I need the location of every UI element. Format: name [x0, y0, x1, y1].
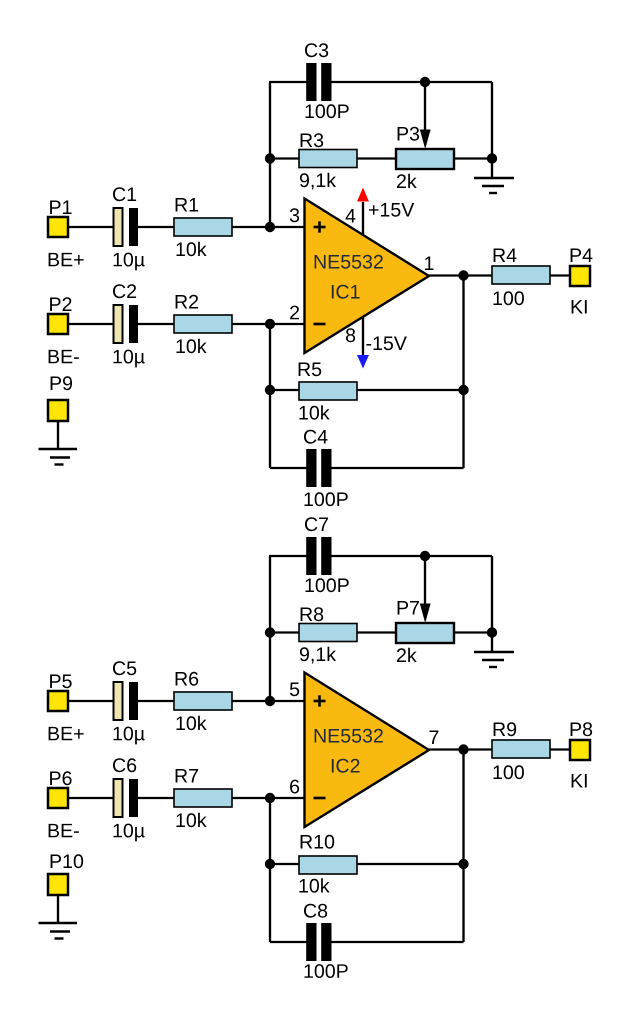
junction noninverting input node	[265, 696, 275, 706]
wire left node to R3	[270, 157, 299, 159]
wire R9 to P8	[550, 748, 570, 750]
pin number 8	[346, 328, 355, 342]
value 9,1k (R8)	[300, 647, 336, 664]
capacitor C4 plate 1	[306, 449, 316, 487]
label R2	[176, 295, 198, 309]
wire +15V supply to pin 4	[362, 202, 364, 236]
wire R6 to opamp pin 5	[232, 700, 304, 702]
op-amp IC1 plus input marker	[314, 226, 326, 229]
label C7	[305, 517, 328, 531]
label P6	[50, 771, 72, 785]
wire R8 to P7	[357, 631, 396, 633]
+15V arrow	[357, 188, 369, 202]
label P2	[50, 297, 71, 311]
connector pad P9	[48, 400, 68, 421]
potentiometer P7	[396, 623, 454, 643]
label P7	[398, 601, 419, 614]
label C6	[113, 758, 136, 772]
label P5	[50, 675, 72, 689]
pin number 3	[290, 208, 299, 222]
wire R7 to opamp pin 6	[232, 797, 304, 799]
connector pad P5	[48, 691, 68, 711]
wiper arrow of P3	[420, 130, 431, 150]
wire R5 to output branch	[357, 389, 464, 391]
wire top rail down to ground	[491, 82, 493, 178]
label R4	[494, 249, 517, 262]
wire P9 to ground	[57, 421, 59, 449]
wire P6 to C6	[68, 797, 113, 799]
pin number 6	[290, 780, 299, 794]
wire noninverting node up to top feedback rail	[269, 82, 271, 227]
wire inverting node down to feedback	[269, 324, 271, 468]
wire R3 to P3	[357, 157, 396, 159]
value 10k (R2)	[176, 339, 206, 353]
capacitor C1 negative plate	[129, 208, 138, 246]
value 100P (C7)	[305, 578, 348, 592]
wire left branch to C8	[270, 941, 307, 943]
resistor R7	[174, 789, 232, 807]
wire P10 to ground	[57, 895, 59, 923]
label R7	[176, 769, 198, 782]
wire -15V supply to pin 8	[362, 316, 364, 355]
capacitor C7 plate 2	[321, 537, 331, 575]
pin number 4	[346, 209, 356, 222]
resistor R4	[492, 266, 550, 284]
wire top rail left of C3	[269, 81, 307, 83]
connector pad P6	[48, 788, 68, 808]
capacitor C3 plate 2	[321, 63, 331, 101]
potentiometer P3	[396, 149, 454, 169]
wire output node down to feedback capacitor	[462, 750, 464, 943]
wire output node down to feedback capacitor	[462, 276, 464, 469]
label IC1	[332, 285, 360, 299]
pin number 7	[430, 731, 439, 744]
junction R3 left node	[265, 153, 275, 163]
label R1	[176, 198, 198, 211]
junction P3 ground node	[487, 153, 497, 163]
junction inverting input node	[265, 319, 275, 329]
wire opamp output to R4	[429, 274, 492, 276]
capacitor C3 plate 1	[306, 63, 316, 101]
wire C1 to R1	[138, 226, 174, 228]
junction wiper tap node	[420, 77, 430, 87]
connector pad P8	[570, 740, 590, 760]
junction R5 left node	[265, 385, 275, 395]
capacitor C4 plate 2	[321, 449, 331, 487]
op-amp IC2 minus input marker	[314, 797, 326, 800]
value 100P (C4)	[304, 492, 347, 506]
pin number 1	[425, 257, 433, 270]
wire left node to R8	[270, 631, 299, 633]
junction R5 right node	[458, 385, 468, 395]
resistor R9	[492, 740, 550, 758]
resistor R6	[174, 692, 232, 710]
junction R10 right node	[458, 859, 468, 869]
wire left to R5	[270, 389, 299, 391]
value 10k (R5)	[299, 405, 329, 419]
op-amp IC1	[305, 199, 430, 354]
label BE- (P6)	[49, 824, 79, 837]
wire left branch to C4	[270, 467, 307, 469]
label R6	[176, 672, 199, 686]
capacitor C5 positive plate	[114, 682, 123, 720]
label R10	[301, 835, 335, 849]
capacitor C6 positive plate	[114, 779, 123, 817]
junction output node	[458, 744, 468, 754]
wire noninverting node up to top feedback rail	[269, 556, 271, 701]
wire P3 to ground node	[454, 157, 492, 159]
wiper wire of P3	[424, 82, 426, 131]
pin number 5	[290, 683, 299, 697]
wire R4 to P4	[550, 274, 570, 276]
label P1	[50, 201, 71, 214]
junction R8 left node	[265, 627, 275, 637]
wire R2 to opamp pin 2	[232, 323, 304, 325]
-15V arrow	[357, 355, 369, 369]
value 100 (R4)	[493, 291, 523, 305]
junction wiper tap node	[420, 551, 430, 561]
wire C2 to R2	[138, 323, 174, 325]
wiper wire of P7	[424, 556, 426, 605]
wire C8 to output branch	[331, 941, 464, 943]
junction P7 ground node	[487, 627, 497, 637]
label KI (P8)	[572, 774, 587, 787]
wire opamp output to R9	[429, 748, 492, 750]
wiper arrow of P7	[420, 604, 431, 624]
label IC2	[332, 759, 360, 773]
connector pad P2	[48, 314, 68, 334]
wire top rail right of C3	[331, 81, 492, 83]
wire P1 to C1	[68, 226, 113, 228]
junction noninverting input node	[265, 222, 275, 232]
label C8	[304, 904, 327, 918]
capacitor C1 positive plate	[114, 208, 123, 246]
resistor R3	[299, 150, 357, 168]
resistor R1	[174, 218, 232, 236]
junction inverting input node	[265, 793, 275, 803]
wire C6 to R7	[138, 797, 174, 799]
value 10µ (C1)	[113, 253, 144, 271]
resistor R10	[299, 856, 357, 874]
ground symbol at potentiometer	[474, 651, 514, 653]
capacitor C8 plate 1	[306, 923, 316, 961]
resistor R8	[299, 624, 357, 642]
value 2k (P3)	[397, 174, 417, 188]
junction output node	[458, 270, 468, 280]
wire top rail down to ground	[491, 556, 493, 652]
value 10µ (C2)	[113, 350, 144, 368]
ground symbol at P9	[39, 448, 78, 450]
label C2	[113, 284, 136, 298]
wire top rail right of C7	[331, 555, 492, 557]
label R9	[494, 722, 517, 736]
connector pad P1	[48, 217, 68, 237]
capacitor C8 plate 2	[321, 923, 331, 961]
capacitor C6 negative plate	[129, 779, 138, 817]
value 10k (R10)	[299, 878, 329, 892]
label C5	[113, 661, 136, 675]
wire C5 to R6	[138, 700, 174, 702]
label P9	[51, 376, 72, 390]
label C1	[113, 187, 136, 201]
capacitor C2 positive plate	[114, 305, 123, 343]
label P4	[571, 249, 593, 262]
label R5	[299, 363, 322, 377]
op-amp IC2	[305, 673, 430, 828]
label -15V	[366, 337, 406, 351]
value 100P (C3)	[305, 104, 348, 118]
value 100 (R9)	[493, 765, 523, 779]
value 10k (R7)	[176, 813, 206, 827]
value 2k (P7)	[397, 648, 417, 662]
pin number 2	[290, 306, 299, 320]
resistor R2	[174, 315, 232, 333]
ground symbol at potentiometer	[474, 177, 514, 179]
wire C4 to output branch	[331, 467, 464, 469]
label C3	[305, 43, 328, 57]
wire P5 to C5	[68, 700, 113, 702]
junction R10 left node	[265, 859, 275, 869]
label P3	[398, 127, 420, 141]
label P10	[51, 854, 83, 868]
connector pad P4	[570, 266, 590, 286]
value 9,1k (R3)	[300, 173, 336, 190]
label KI (P4)	[572, 300, 587, 313]
label R3	[301, 133, 324, 147]
label NE5532 (IC1)	[315, 255, 383, 269]
value 10k (R6)	[176, 716, 206, 730]
value 10k (R1)	[176, 242, 206, 256]
label C4	[304, 430, 327, 444]
op-amp IC1 minus input marker	[314, 323, 326, 326]
label BE+ (P1)	[49, 253, 84, 266]
value 10µ (C5)	[113, 727, 144, 745]
value 10µ (C6)	[113, 824, 144, 842]
op-amp IC2 plus input marker	[314, 700, 326, 703]
connector pad P10	[48, 874, 68, 895]
capacitor C5 negative plate	[129, 682, 138, 720]
label +15V	[369, 203, 414, 217]
wire left to R10	[270, 863, 299, 865]
wire P7 to ground node	[454, 631, 492, 633]
ground symbol at P10	[39, 922, 78, 924]
capacitor C7 plate 1	[306, 537, 316, 575]
wire top rail left of C7	[269, 555, 307, 557]
wire inverting node down to feedback	[269, 798, 271, 942]
label R8	[301, 607, 324, 621]
wire P2 to C2	[68, 323, 113, 325]
wire R1 to opamp pin 3	[232, 226, 304, 228]
resistor R5	[299, 382, 357, 400]
label BE+ (P5)	[49, 727, 84, 740]
wire R10 to output branch	[357, 863, 464, 865]
label BE- (P2)	[49, 350, 79, 363]
value 100P (C8)	[304, 964, 347, 978]
label NE5532 (IC2)	[315, 729, 383, 743]
label P8	[571, 722, 593, 736]
capacitor C2 negative plate	[129, 305, 138, 343]
